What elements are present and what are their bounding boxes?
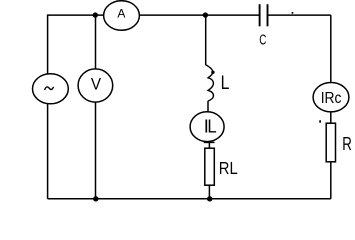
inductor knot blob	[211, 71, 214, 74]
wire IL meter to resistor RL	[208, 142, 210, 148]
node junction top-middle	[203, 12, 208, 17]
svg-text:L: L	[221, 73, 230, 94]
IRc meter circle	[313, 83, 349, 112]
svg-text:L: L	[207, 116, 216, 137]
inductor L coil	[206, 65, 214, 101]
wire ammeter to capacitor left plate	[140, 14, 260, 16]
wire right branch upper (corner down to IRc meter)	[330, 15, 332, 83]
wire top-left corner: left branch up + top wire to ammeter	[48, 15, 104, 74]
capacitor C left plate	[259, 4, 261, 26]
IL meter circle	[190, 112, 224, 142]
stray tick near resistor R top	[319, 120, 321, 123]
wire voltmeter branch lower	[95, 102, 97, 199]
voltmeter V circle	[78, 69, 113, 102]
wire voltmeter branch upper	[95, 15, 97, 69]
svg-text:C: C	[259, 33, 266, 49]
svg-text:RL: RL	[219, 158, 238, 178]
capacitor C right plate	[267, 4, 269, 26]
node junction bottom-middle	[207, 196, 212, 201]
stray dot on top wire	[292, 12, 294, 14]
resistor R body	[326, 123, 335, 162]
svg-text:V: V	[91, 74, 101, 93]
resistor RL body	[205, 148, 215, 185]
ammeter A circle	[104, 1, 140, 31]
wire middle branch upper (junction to inductor)	[205, 15, 207, 65]
svg-text:R: R	[342, 133, 352, 154]
wire left branch lower (source to bottom wire)	[47, 104, 49, 199]
wire capacitor right plate to top-right corner	[268, 14, 331, 16]
svg-text:A: A	[117, 7, 126, 21]
wire IRc meter to resistor R	[330, 112, 332, 124]
wire inductor to IL meter	[207, 101, 209, 112]
node junction top-left	[93, 12, 98, 17]
wire resistor RL to bottom bus	[208, 185, 210, 199]
wire IL meter bottom bar	[204, 141, 215, 143]
AC source tilde symbol	[45, 87, 54, 90]
AC source circle	[33, 74, 69, 104]
wire bottom bus	[48, 198, 331, 200]
svg-text:IRc: IRc	[321, 90, 342, 107]
wire resistor R to bottom-right corner	[330, 162, 332, 199]
node junction bottom-left	[93, 196, 98, 201]
